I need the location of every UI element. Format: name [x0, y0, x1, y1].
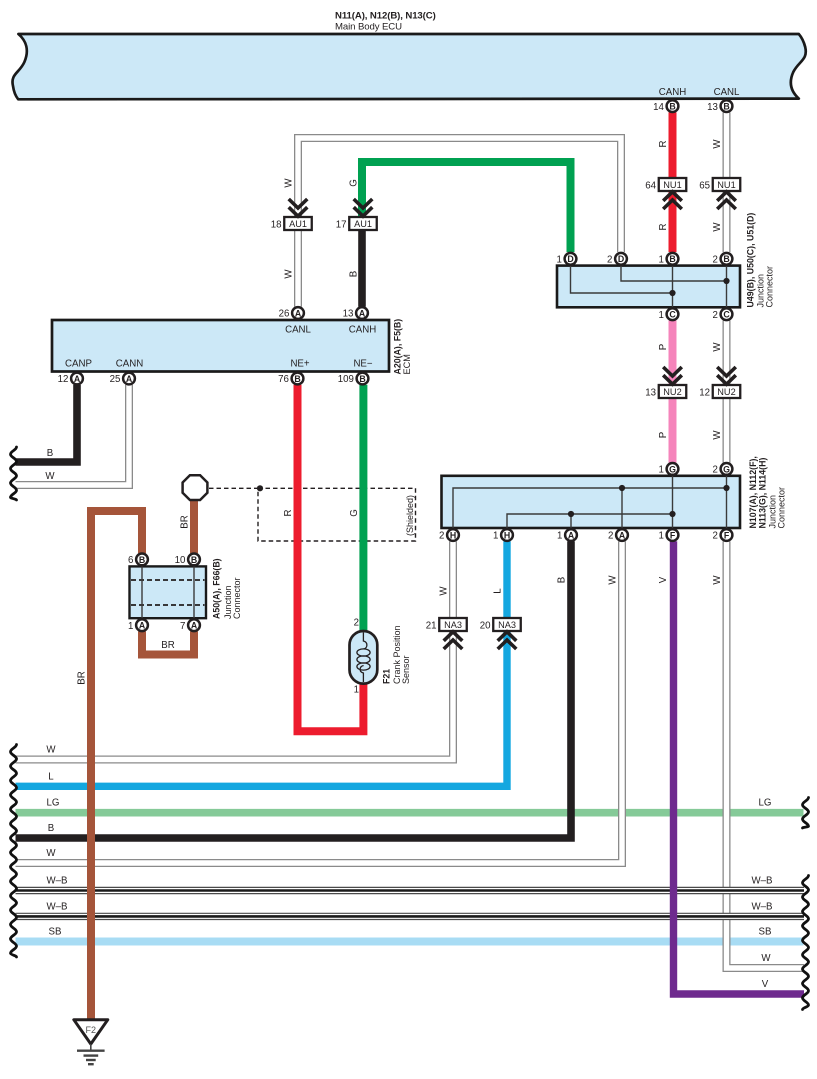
svg-text:G: G [723, 464, 730, 474]
svg-text:CANH: CANH [659, 87, 686, 98]
svg-text:L: L [48, 771, 54, 782]
svg-text:P: P [658, 432, 669, 438]
svg-text:2: 2 [713, 531, 718, 542]
svg-text:H: H [450, 530, 456, 540]
svg-text:H: H [504, 530, 510, 540]
svg-text:G: G [349, 509, 360, 517]
svg-text:D: D [618, 254, 624, 264]
svg-text:W: W [46, 848, 56, 859]
svg-text:L: L [493, 588, 504, 594]
svg-text:R: R [658, 141, 669, 148]
svg-text:LG: LG [759, 798, 772, 809]
svg-text:2: 2 [354, 618, 359, 629]
svg-text:2: 2 [713, 465, 718, 476]
svg-text:N11(A), N12(B), N13(C): N11(A), N12(B), N13(C) [335, 11, 436, 22]
svg-text:NA3: NA3 [498, 620, 516, 630]
svg-text:7: 7 [180, 621, 185, 632]
svg-text:V: V [658, 576, 669, 583]
svg-text:21: 21 [426, 620, 437, 631]
svg-text:B: B [723, 102, 729, 112]
svg-text:W: W [439, 586, 450, 596]
svg-text:A20(A), F5(B): A20(A), F5(B) [393, 319, 403, 375]
svg-text:(Shielded): (Shielded) [405, 495, 415, 536]
svg-text:W–B: W–B [752, 901, 773, 912]
svg-text:C: C [669, 310, 676, 320]
svg-text:CANN: CANN [116, 359, 143, 370]
svg-text:B: B [669, 102, 675, 112]
svg-text:1: 1 [557, 255, 562, 266]
svg-text:25: 25 [110, 374, 121, 385]
svg-text:P: P [658, 344, 669, 350]
svg-text:2: 2 [607, 255, 612, 266]
svg-text:2: 2 [439, 531, 444, 542]
svg-text:CANL: CANL [714, 87, 740, 98]
svg-text:65: 65 [699, 180, 710, 191]
svg-text:1: 1 [659, 531, 664, 542]
svg-text:G: G [349, 179, 360, 187]
svg-text:Sensor: Sensor [401, 655, 411, 684]
svg-text:13: 13 [343, 309, 354, 320]
svg-text:SB: SB [49, 927, 62, 938]
svg-text:6: 6 [128, 555, 133, 566]
svg-text:B: B [48, 823, 54, 834]
svg-text:A: A [126, 374, 133, 384]
svg-text:SB: SB [759, 927, 772, 938]
svg-text:NU1: NU1 [717, 180, 735, 190]
svg-text:W: W [45, 471, 55, 482]
svg-text:V: V [762, 979, 769, 990]
svg-text:1: 1 [659, 255, 664, 266]
svg-text:AU1: AU1 [354, 219, 372, 229]
svg-text:CANP: CANP [65, 359, 92, 370]
svg-text:N113(G), N114(H): N113(G), N114(H) [758, 458, 768, 529]
svg-text:2: 2 [713, 310, 718, 321]
svg-text:U49(B), U50(C), U51(D): U49(B), U50(C), U51(D) [746, 213, 756, 308]
svg-text:BR: BR [77, 671, 88, 684]
svg-text:B: B [191, 555, 197, 565]
svg-text:NU2: NU2 [663, 387, 681, 397]
svg-text:1: 1 [659, 465, 664, 476]
svg-text:A: A [359, 308, 366, 318]
svg-text:12: 12 [58, 374, 69, 385]
svg-text:1: 1 [354, 685, 359, 696]
svg-text:Connector: Connector [765, 266, 775, 308]
svg-text:NA3: NA3 [444, 620, 462, 630]
svg-text:W: W [712, 139, 723, 149]
svg-text:A: A [139, 621, 146, 631]
svg-text:F: F [724, 530, 730, 540]
svg-text:1: 1 [557, 531, 562, 542]
svg-text:B: B [349, 271, 360, 277]
svg-text:ECM: ECM [402, 354, 412, 374]
svg-text:2: 2 [713, 255, 718, 266]
svg-text:2: 2 [608, 531, 613, 542]
svg-text:1: 1 [659, 310, 664, 321]
svg-text:G: G [669, 464, 676, 474]
svg-text:W: W [712, 430, 723, 440]
svg-text:B: B [557, 577, 568, 583]
svg-text:W: W [46, 745, 56, 756]
svg-text:LG: LG [47, 798, 60, 809]
svg-text:12: 12 [699, 387, 710, 398]
svg-text:Connector: Connector [777, 487, 787, 529]
svg-text:A50(A), F66(B): A50(A), F66(B) [212, 558, 222, 619]
svg-text:A: A [191, 621, 198, 631]
svg-text:13: 13 [645, 387, 656, 398]
svg-text:B: B [139, 555, 145, 565]
svg-text:B: B [47, 448, 53, 459]
svg-text:W: W [712, 575, 723, 585]
svg-text:A: A [74, 374, 81, 384]
svg-text:AU1: AU1 [289, 219, 307, 229]
svg-text:Main Body ECU: Main Body ECU [335, 22, 402, 33]
svg-text:R: R [283, 510, 294, 517]
svg-text:D: D [567, 254, 573, 264]
svg-text:F21: F21 [382, 669, 392, 684]
svg-text:W–B: W–B [752, 876, 773, 887]
svg-text:NE−: NE− [353, 359, 372, 370]
svg-text:W: W [284, 178, 295, 188]
svg-text:B: B [294, 374, 300, 384]
svg-text:A: A [619, 530, 626, 540]
svg-text:A: A [295, 308, 302, 318]
svg-text:B: B [723, 254, 729, 264]
svg-text:Connector: Connector [232, 577, 242, 619]
svg-text:BR: BR [180, 515, 191, 528]
svg-text:CANH: CANH [349, 325, 376, 336]
svg-text:NE+: NE+ [290, 359, 309, 370]
svg-text:NU1: NU1 [663, 180, 681, 190]
svg-text:14: 14 [653, 102, 664, 113]
svg-text:1: 1 [493, 531, 498, 542]
svg-text:W: W [608, 575, 619, 585]
svg-text:109: 109 [338, 374, 354, 385]
svg-text:20: 20 [480, 620, 491, 631]
svg-text:18: 18 [271, 219, 282, 230]
svg-text:10: 10 [175, 555, 186, 566]
svg-text:17: 17 [336, 219, 347, 230]
svg-text:F2: F2 [86, 1025, 97, 1035]
svg-text:64: 64 [645, 180, 656, 191]
svg-text:A: A [568, 530, 575, 540]
svg-text:W: W [284, 269, 295, 279]
svg-text:C: C [723, 310, 730, 320]
svg-text:76: 76 [278, 374, 289, 385]
svg-text:W–B: W–B [47, 876, 68, 887]
svg-text:1: 1 [128, 621, 133, 632]
svg-text:W: W [761, 953, 771, 964]
svg-text:26: 26 [279, 309, 290, 320]
svg-text:B: B [669, 254, 675, 264]
svg-text:13: 13 [707, 102, 718, 113]
svg-text:NU2: NU2 [717, 387, 735, 397]
svg-text:W–B: W–B [47, 901, 68, 912]
svg-text:W: W [712, 342, 723, 352]
svg-text:CANL: CANL [285, 325, 311, 336]
svg-text:F: F [670, 530, 676, 540]
svg-text:BR: BR [161, 640, 174, 651]
svg-text:W: W [712, 222, 723, 232]
svg-text:B: B [359, 374, 365, 384]
svg-text:R: R [658, 224, 669, 231]
svg-text:N107(A), N112(F),: N107(A), N112(F), [748, 456, 758, 528]
